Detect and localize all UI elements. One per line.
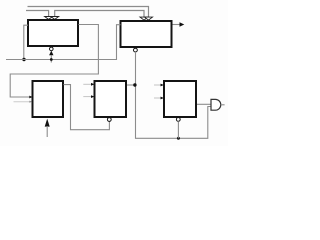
wire U2 output — [173, 24, 180, 26]
wire U5 bubble to feedback net — [177, 121, 179, 138]
wire U5 output to gate G1 upper input — [197, 103, 211, 105]
arrowhead into U4 upper left input — [91, 83, 94, 86]
inverter bubble on U2 bottom pin — [134, 48, 138, 52]
register U4 (bottom middle block) — [95, 81, 127, 117]
inverter bubble on U1 bottom clock pin — [50, 47, 54, 51]
arrowhead into U5 upper left input — [161, 84, 164, 87]
wire U4 right input from feedback net — [127, 84, 135, 86]
wire U2 bubble feedback net down right and to gate G1 lower input — [136, 52, 212, 138]
wire clock net horizontal rail to U2 left input — [6, 25, 121, 60]
wire U5 upper input stub (faint) — [154, 84, 161, 86]
arrowhead into U3 lower left input (faint) — [29, 101, 32, 103]
wire U1 left input from clock net — [24, 25, 28, 59]
register U2 (top right block) — [121, 21, 172, 47]
register U5 (bottom right block) — [164, 81, 196, 117]
inverter bubble on U4 bottom pin — [107, 118, 111, 122]
inverter bubble on U5 bottom pin — [176, 118, 180, 122]
register U3 (bottom left block) — [33, 81, 64, 117]
wire bus line 2 left segment (into U1) — [26, 11, 49, 18]
junction dot feedback net to U4 — [133, 83, 136, 86]
wire U3 output to U4 bottom bubble — [64, 85, 110, 130]
wire U4 upper input stub (faint) — [83, 83, 91, 85]
arrowhead into U1 top pin 2 — [51, 17, 59, 20]
clock arrow into U3 bottom — [45, 119, 50, 127]
wire bus line 1 (top rail into U2) — [28, 7, 149, 18]
arrowhead into U1 top pin 1 — [45, 17, 53, 20]
arrowhead into U4 lower left input — [91, 95, 94, 98]
wire gate G1 output stub — [221, 104, 225, 106]
register U1 (top left block) — [28, 20, 78, 46]
and-gate G1 — [211, 99, 221, 110]
wire U1 clock stub — [50, 55, 52, 63]
arrowhead into U3 upper left input — [29, 96, 32, 99]
wire U4 lower input stub (faint) — [83, 96, 91, 98]
junction dot clock stub on rail — [50, 58, 53, 61]
wire U3 clock stub — [46, 126, 48, 137]
junction dot node CLK at (24,59.5) — [22, 58, 25, 61]
clock arrow into U1 bottom — [49, 51, 53, 56]
arrowhead into U2 top pin 1 — [140, 17, 148, 20]
wire U3 lower input stub (faint) — [14, 101, 30, 103]
arrowhead U2 output (filled, pointing right) — [180, 22, 185, 26]
arrowhead into U2 top pin 2 — [145, 17, 153, 20]
wire U5 lower input stub (faint) — [154, 97, 161, 99]
wire bus line 2 right segment (U1 to U2) — [55, 11, 144, 18]
junction dot feedback net below U5 — [177, 137, 180, 140]
wire U1 output to U3 upper input — [10, 25, 98, 98]
arrowhead into U5 lower left input — [161, 97, 164, 100]
